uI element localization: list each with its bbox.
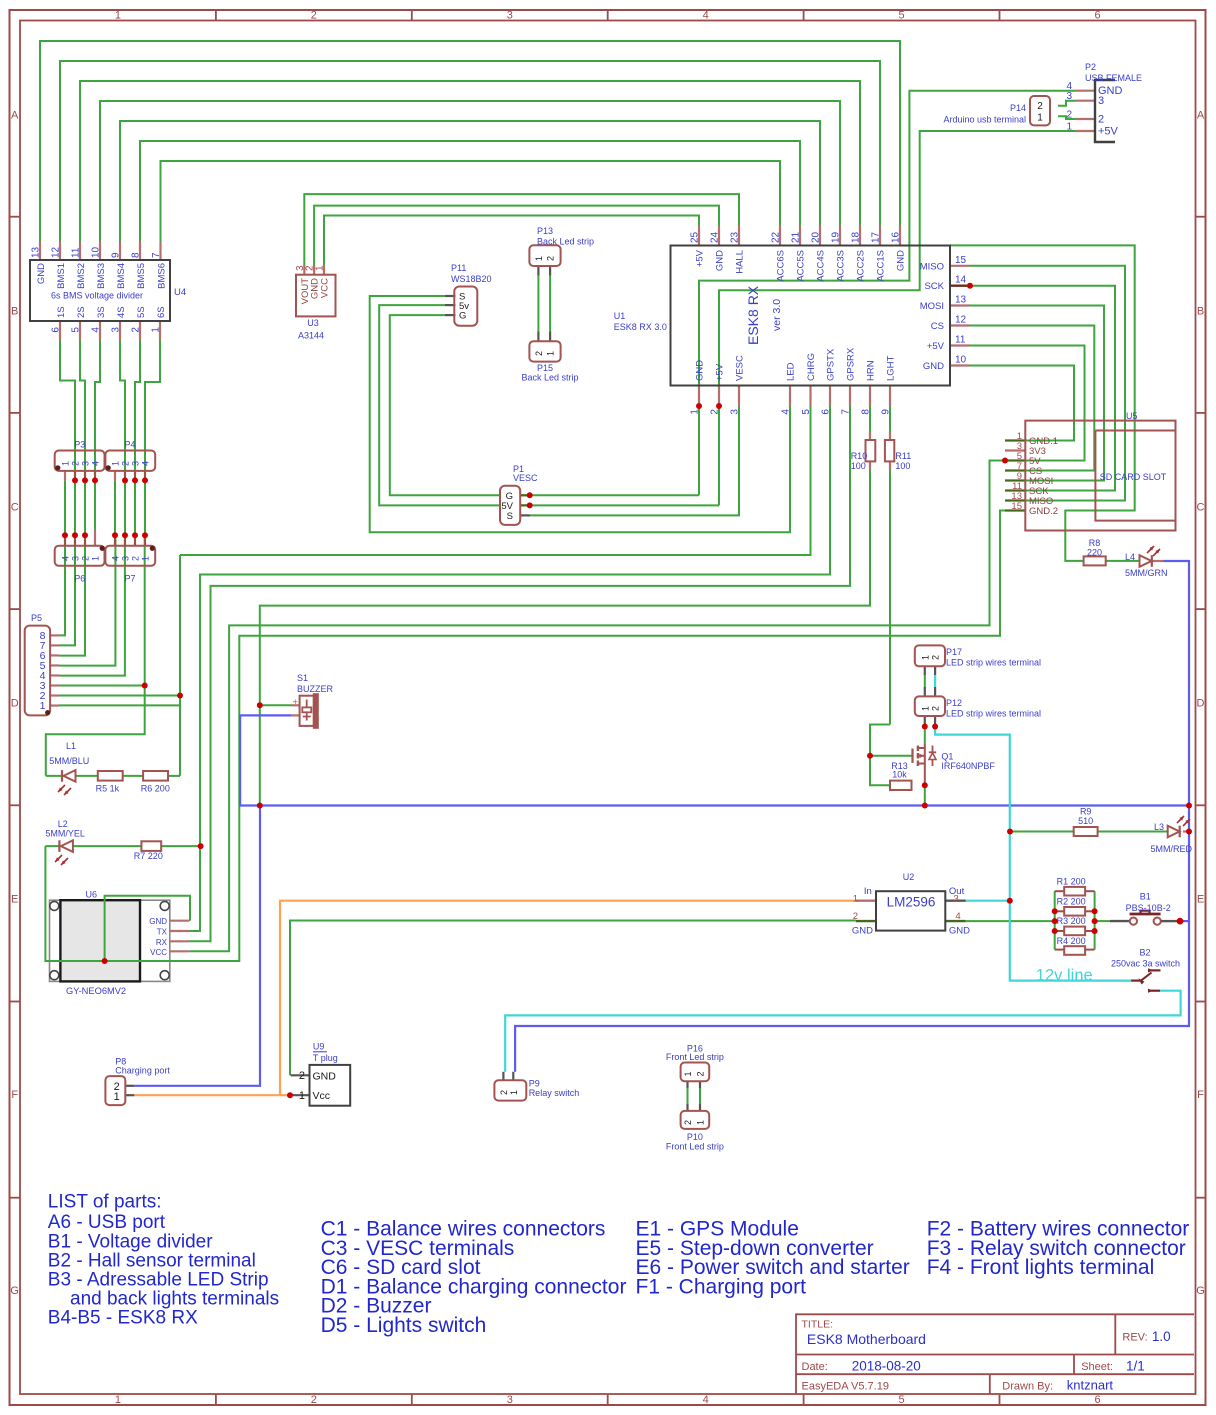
svg-text:8: 8 bbox=[131, 252, 142, 258]
svg-text:7: 7 bbox=[841, 409, 852, 415]
svg-text:2S: 2S bbox=[76, 306, 87, 318]
svg-text:HALL: HALL bbox=[735, 250, 746, 274]
svg-text:2: 2 bbox=[311, 10, 317, 22]
svg-text:4: 4 bbox=[955, 911, 960, 922]
svg-text:17: 17 bbox=[871, 231, 882, 243]
svg-text:4: 4 bbox=[781, 409, 792, 415]
svg-text:2: 2 bbox=[546, 256, 556, 261]
svg-text:Front Led strip: Front Led strip bbox=[666, 1142, 724, 1152]
svg-text:P15: P15 bbox=[537, 363, 553, 373]
svg-text:Q1: Q1 bbox=[941, 752, 953, 762]
svg-text:VESC: VESC bbox=[513, 473, 538, 483]
svg-text:Relay switch: Relay switch bbox=[529, 1088, 580, 1098]
svg-text:P2: P2 bbox=[1085, 62, 1096, 72]
svg-text:5MM/GRN: 5MM/GRN bbox=[1125, 568, 1168, 578]
svg-text:L4: L4 bbox=[1125, 552, 1135, 562]
svg-text:2: 2 bbox=[121, 461, 131, 466]
svg-text:1: 1 bbox=[920, 706, 930, 711]
svg-text:100: 100 bbox=[895, 461, 910, 471]
svg-text:B3 - Adressable LED Strip: B3 - Adressable LED Strip bbox=[48, 1269, 269, 1290]
svg-text:12: 12 bbox=[955, 315, 967, 326]
svg-text:HRN: HRN bbox=[866, 360, 877, 381]
svg-text:P12: P12 bbox=[946, 698, 962, 708]
svg-text:3: 3 bbox=[121, 556, 131, 561]
svg-text:ACC4S: ACC4S bbox=[816, 250, 827, 282]
svg-text:250vac 3a switch: 250vac 3a switch bbox=[1111, 959, 1180, 969]
svg-text:R10: R10 bbox=[851, 451, 868, 461]
svg-text:3: 3 bbox=[1066, 91, 1072, 102]
svg-text:BMS1: BMS1 bbox=[56, 263, 67, 289]
svg-text:1: 1 bbox=[509, 1090, 519, 1095]
svg-text:GND: GND bbox=[695, 360, 706, 381]
svg-text:A: A bbox=[1197, 110, 1205, 122]
svg-text:R2 200: R2 200 bbox=[1057, 896, 1086, 906]
svg-text:5MM/BLU: 5MM/BLU bbox=[49, 756, 89, 766]
svg-text:LGHT: LGHT bbox=[886, 355, 897, 381]
svg-text:4: 4 bbox=[703, 10, 709, 22]
svg-text:3: 3 bbox=[111, 327, 122, 333]
svg-text:18: 18 bbox=[851, 231, 862, 243]
svg-text:4: 4 bbox=[91, 327, 102, 333]
svg-text:1: 1 bbox=[1037, 113, 1043, 124]
svg-text:C: C bbox=[1197, 502, 1205, 514]
svg-text:A6 - USB port: A6 - USB port bbox=[48, 1212, 166, 1233]
svg-text:5: 5 bbox=[899, 1394, 905, 1406]
svg-text:22: 22 bbox=[771, 231, 782, 243]
svg-text:B4-B5 - ESK8 RX: B4-B5 - ESK8 RX bbox=[48, 1307, 198, 1328]
svg-text:6: 6 bbox=[1094, 1394, 1100, 1406]
svg-text:1/1: 1/1 bbox=[1126, 1358, 1145, 1373]
svg-text:2: 2 bbox=[81, 556, 91, 561]
svg-text:1.0: 1.0 bbox=[1152, 1329, 1171, 1344]
svg-text:E: E bbox=[1197, 893, 1204, 905]
svg-text:BUZZER: BUZZER bbox=[297, 684, 334, 694]
svg-text:G: G bbox=[1196, 1285, 1205, 1297]
svg-text:F4 - Front lights terminal: F4 - Front lights terminal bbox=[927, 1256, 1155, 1279]
svg-text:12v line: 12v line bbox=[1036, 967, 1093, 985]
svg-text:2: 2 bbox=[534, 351, 544, 356]
svg-text:8: 8 bbox=[861, 409, 872, 415]
svg-text:P4: P4 bbox=[124, 440, 135, 450]
svg-text:ACC6S: ACC6S bbox=[776, 250, 787, 282]
svg-text:BMS2: BMS2 bbox=[76, 263, 87, 289]
svg-text:R1 200: R1 200 bbox=[1057, 876, 1086, 886]
svg-text:5MM/YEL: 5MM/YEL bbox=[45, 829, 85, 839]
svg-text:1: 1 bbox=[91, 556, 101, 561]
svg-text:1: 1 bbox=[315, 265, 326, 271]
svg-text:2: 2 bbox=[131, 556, 141, 561]
svg-text:P10: P10 bbox=[687, 1132, 703, 1142]
svg-text:6: 6 bbox=[1094, 10, 1100, 22]
svg-text:G: G bbox=[459, 311, 466, 322]
svg-text:1: 1 bbox=[1066, 122, 1072, 133]
svg-text:1: 1 bbox=[546, 351, 556, 356]
svg-text:510: 510 bbox=[1078, 816, 1093, 826]
svg-text:4: 4 bbox=[111, 556, 121, 561]
svg-text:2: 2 bbox=[931, 706, 941, 711]
svg-text:3: 3 bbox=[954, 894, 959, 905]
svg-text:MOSI: MOSI bbox=[920, 301, 944, 312]
svg-text:P7: P7 bbox=[124, 574, 135, 584]
svg-text:GND: GND bbox=[715, 250, 726, 271]
svg-text:SCK: SCK bbox=[924, 281, 944, 292]
svg-text:GND: GND bbox=[36, 263, 47, 284]
svg-text:ESK8 RX 3.0: ESK8 RX 3.0 bbox=[614, 322, 667, 332]
svg-text:Drawn By:: Drawn By: bbox=[1002, 1380, 1053, 1392]
svg-text:B2: B2 bbox=[1139, 948, 1150, 958]
svg-text:11: 11 bbox=[955, 335, 966, 346]
svg-text:25: 25 bbox=[690, 231, 701, 243]
svg-text:3: 3 bbox=[507, 10, 513, 22]
svg-text:F: F bbox=[1197, 1089, 1204, 1101]
svg-text:U3: U3 bbox=[307, 318, 319, 328]
svg-text:15: 15 bbox=[1011, 501, 1022, 512]
svg-text:P6: P6 bbox=[74, 574, 85, 584]
svg-text:7: 7 bbox=[151, 252, 162, 258]
svg-text:P14: P14 bbox=[1010, 103, 1026, 113]
svg-text:1: 1 bbox=[690, 409, 701, 415]
svg-text:EasyEDA V5.7.19: EasyEDA V5.7.19 bbox=[802, 1380, 889, 1392]
svg-text:1: 1 bbox=[151, 327, 162, 333]
svg-text:5: 5 bbox=[71, 327, 82, 333]
svg-text:L2: L2 bbox=[58, 819, 68, 829]
svg-text:12: 12 bbox=[51, 246, 62, 258]
svg-text:100: 100 bbox=[851, 461, 866, 471]
svg-text:S1: S1 bbox=[297, 673, 308, 683]
svg-text:U5: U5 bbox=[1126, 411, 1138, 421]
svg-text:23: 23 bbox=[730, 231, 741, 243]
svg-text:T plug: T plug bbox=[313, 1053, 338, 1063]
svg-text:BMS4: BMS4 bbox=[116, 263, 127, 289]
svg-text:WS18B20: WS18B20 bbox=[451, 274, 492, 284]
svg-text:G: G bbox=[10, 1285, 19, 1297]
svg-text:1: 1 bbox=[696, 1120, 706, 1125]
svg-text:1: 1 bbox=[40, 700, 46, 712]
svg-text:L1: L1 bbox=[66, 741, 76, 751]
svg-text:VCC: VCC bbox=[150, 948, 167, 957]
svg-text:4: 4 bbox=[91, 461, 101, 466]
svg-text:MISO: MISO bbox=[920, 261, 944, 272]
svg-text:U2: U2 bbox=[903, 872, 915, 882]
svg-text:20: 20 bbox=[811, 231, 822, 243]
svg-text:GND: GND bbox=[896, 250, 907, 271]
svg-text:1: 1 bbox=[920, 655, 930, 660]
svg-text:16: 16 bbox=[891, 231, 902, 243]
svg-text:A3144: A3144 bbox=[298, 331, 324, 341]
svg-text:ACC3S: ACC3S bbox=[836, 250, 847, 282]
svg-text:4: 4 bbox=[703, 1394, 709, 1406]
svg-text:GND.2: GND.2 bbox=[1029, 506, 1058, 517]
svg-text:2: 2 bbox=[499, 1090, 509, 1095]
svg-text:U1: U1 bbox=[614, 311, 626, 321]
svg-text:Vcc: Vcc bbox=[313, 1090, 331, 1102]
svg-text:Front Led strip: Front Led strip bbox=[666, 1052, 724, 1062]
svg-text:GND: GND bbox=[949, 926, 970, 937]
svg-text:REV:: REV: bbox=[1122, 1331, 1147, 1343]
svg-text:LIST of parts:: LIST of parts: bbox=[48, 1192, 162, 1213]
svg-text:C: C bbox=[11, 502, 19, 514]
svg-text:GND: GND bbox=[313, 1071, 337, 1083]
svg-text:LED strip wires terminal: LED strip wires terminal bbox=[946, 658, 1041, 668]
svg-text:5: 5 bbox=[801, 409, 812, 415]
svg-text:GY-NEO6MV2: GY-NEO6MV2 bbox=[66, 986, 126, 996]
svg-text:14: 14 bbox=[955, 275, 967, 286]
svg-text:BMS6: BMS6 bbox=[157, 263, 168, 289]
svg-text:LED strip wires terminal: LED strip wires terminal bbox=[946, 709, 1041, 719]
svg-text:ACC5S: ACC5S bbox=[796, 250, 807, 282]
svg-text:2: 2 bbox=[71, 461, 81, 466]
svg-text:ACC1S: ACC1S bbox=[876, 250, 887, 282]
svg-text:B: B bbox=[1197, 306, 1204, 318]
svg-text:2: 2 bbox=[710, 409, 721, 415]
svg-text:LM2596: LM2596 bbox=[887, 895, 936, 910]
svg-text:9: 9 bbox=[111, 252, 122, 258]
svg-text:1: 1 bbox=[853, 894, 858, 905]
svg-text:3: 3 bbox=[1098, 95, 1104, 107]
svg-text:1: 1 bbox=[141, 556, 151, 561]
svg-text:VESC: VESC bbox=[735, 355, 746, 381]
svg-text:CHRG: CHRG bbox=[806, 353, 817, 381]
svg-text:R9: R9 bbox=[1080, 807, 1092, 817]
svg-text:5S: 5S bbox=[136, 306, 147, 318]
svg-text:kntznart: kntznart bbox=[1067, 1378, 1114, 1393]
svg-text:Back Led strip: Back Led strip bbox=[537, 237, 594, 247]
svg-text:ACC2S: ACC2S bbox=[856, 250, 867, 282]
svg-text:R4 200: R4 200 bbox=[1057, 936, 1086, 946]
svg-text:U6: U6 bbox=[86, 890, 98, 900]
svg-text:GND: GND bbox=[852, 926, 873, 937]
svg-text:Back Led strip: Back Led strip bbox=[521, 373, 578, 383]
svg-text:13: 13 bbox=[31, 246, 42, 258]
svg-text:9: 9 bbox=[881, 409, 892, 415]
svg-text:S: S bbox=[507, 511, 513, 522]
svg-text:+: + bbox=[293, 697, 298, 707]
svg-text:+5V: +5V bbox=[927, 341, 945, 352]
svg-text:and back lights terminals: and back lights terminals bbox=[70, 1288, 279, 1309]
svg-text:1: 1 bbox=[683, 1071, 693, 1076]
svg-text:2: 2 bbox=[131, 327, 142, 333]
svg-text:24: 24 bbox=[710, 231, 721, 243]
svg-text:R6 200: R6 200 bbox=[141, 784, 170, 794]
svg-text:6S: 6S bbox=[156, 306, 167, 318]
svg-text:SD CARD SLOT: SD CARD SLOT bbox=[1100, 472, 1167, 482]
svg-text:D5 - Lights switch: D5 - Lights switch bbox=[321, 1314, 487, 1337]
svg-text:3: 3 bbox=[131, 461, 141, 466]
svg-text:B1: B1 bbox=[1140, 892, 1151, 902]
svg-text:5: 5 bbox=[899, 10, 905, 22]
svg-text:6: 6 bbox=[51, 327, 62, 333]
svg-text:LED: LED bbox=[786, 362, 797, 381]
svg-text:Charging port: Charging port bbox=[115, 1065, 170, 1075]
svg-text:1S: 1S bbox=[56, 306, 67, 318]
svg-text:USB FEMALE: USB FEMALE bbox=[1085, 73, 1142, 83]
svg-text:D: D bbox=[1197, 697, 1205, 709]
svg-text:B2 - Hall sensor terminal: B2 - Hall sensor terminal bbox=[48, 1250, 256, 1271]
svg-text:+5V: +5V bbox=[715, 363, 726, 381]
svg-text:ESK8 RX: ESK8 RX bbox=[745, 285, 761, 345]
svg-text:6s BMS voltage divider: 6s BMS voltage divider bbox=[51, 291, 143, 301]
svg-text:R8: R8 bbox=[1089, 538, 1101, 548]
svg-text:R11: R11 bbox=[895, 451, 911, 461]
svg-text:1: 1 bbox=[534, 256, 544, 261]
svg-text:21: 21 bbox=[791, 231, 802, 243]
svg-text:P3: P3 bbox=[74, 440, 85, 450]
svg-text:F: F bbox=[11, 1089, 18, 1101]
svg-text:GND: GND bbox=[923, 361, 944, 372]
svg-text:B: B bbox=[11, 306, 18, 318]
svg-text:GND: GND bbox=[149, 917, 167, 926]
svg-text:3: 3 bbox=[730, 409, 741, 415]
svg-text:A: A bbox=[11, 110, 19, 122]
svg-text:R7 220: R7 220 bbox=[134, 851, 163, 861]
svg-text:2: 2 bbox=[1066, 110, 1072, 121]
svg-text:2: 2 bbox=[683, 1120, 693, 1125]
svg-text:Sheet:: Sheet: bbox=[1081, 1361, 1113, 1373]
svg-text:L3: L3 bbox=[1154, 822, 1164, 832]
svg-text:P17: P17 bbox=[946, 647, 962, 657]
svg-text:2: 2 bbox=[1098, 114, 1104, 126]
svg-text:1: 1 bbox=[61, 461, 71, 466]
svg-text:+5V: +5V bbox=[1098, 126, 1119, 138]
svg-text:10k: 10k bbox=[892, 770, 907, 780]
svg-text:3S: 3S bbox=[96, 306, 107, 318]
svg-text:2: 2 bbox=[696, 1071, 706, 1076]
svg-text:VCC: VCC bbox=[320, 278, 331, 298]
svg-text:6: 6 bbox=[821, 409, 832, 415]
svg-text:U9: U9 bbox=[313, 1042, 325, 1052]
svg-text:1: 1 bbox=[115, 1394, 121, 1406]
svg-text:4S: 4S bbox=[116, 306, 127, 318]
svg-text:1: 1 bbox=[299, 1090, 305, 1102]
svg-text:PBS-10B-2: PBS-10B-2 bbox=[1126, 903, 1171, 913]
svg-text:TX: TX bbox=[157, 928, 168, 937]
svg-text:In: In bbox=[864, 886, 872, 897]
svg-text:R3 200: R3 200 bbox=[1057, 916, 1086, 926]
svg-text:IRF640NPBF: IRF640NPBF bbox=[941, 761, 995, 771]
svg-text:1: 1 bbox=[111, 461, 121, 466]
svg-text:5MM/RED: 5MM/RED bbox=[1151, 844, 1193, 854]
svg-text:2: 2 bbox=[299, 1070, 305, 1082]
svg-text:4: 4 bbox=[141, 461, 151, 466]
svg-text:11: 11 bbox=[71, 247, 82, 258]
svg-text:3: 3 bbox=[81, 461, 91, 466]
svg-text:1: 1 bbox=[114, 1091, 120, 1103]
svg-text:U4: U4 bbox=[174, 287, 186, 298]
svg-text:D: D bbox=[11, 697, 19, 709]
svg-text:BMS5: BMS5 bbox=[136, 263, 147, 289]
svg-text:RX: RX bbox=[156, 938, 168, 947]
svg-text:P5: P5 bbox=[31, 613, 42, 623]
svg-text:13: 13 bbox=[955, 295, 967, 306]
svg-text:BMS3: BMS3 bbox=[96, 263, 107, 289]
svg-text:P11: P11 bbox=[451, 263, 466, 273]
svg-text:3: 3 bbox=[507, 1394, 513, 1406]
svg-text:2: 2 bbox=[853, 911, 858, 922]
svg-text:GPSTX: GPSTX bbox=[826, 348, 837, 381]
svg-text:2: 2 bbox=[931, 655, 941, 660]
svg-text:GPSRX: GPSRX bbox=[846, 347, 857, 381]
svg-text:Date:: Date: bbox=[802, 1361, 828, 1373]
svg-text:4: 4 bbox=[61, 556, 71, 561]
svg-text:F1 - Charging port: F1 - Charging port bbox=[636, 1275, 807, 1298]
svg-text:Arduino usb terminal: Arduino usb terminal bbox=[943, 115, 1026, 125]
svg-text:+5V: +5V bbox=[695, 249, 706, 267]
svg-text:19: 19 bbox=[831, 231, 842, 243]
svg-text:220: 220 bbox=[1087, 548, 1102, 558]
svg-text:15: 15 bbox=[955, 255, 967, 266]
svg-text:2018-08-20: 2018-08-20 bbox=[852, 1358, 921, 1373]
svg-text:P13: P13 bbox=[537, 226, 553, 236]
svg-text:CS: CS bbox=[931, 321, 944, 332]
svg-text:10: 10 bbox=[955, 355, 967, 366]
svg-text:TITLE:: TITLE: bbox=[802, 1318, 834, 1330]
svg-text:E: E bbox=[11, 893, 18, 905]
svg-text:2: 2 bbox=[1037, 101, 1043, 112]
svg-text:ESK8 Motherboard: ESK8 Motherboard bbox=[807, 1331, 926, 1347]
svg-text:R5 1k: R5 1k bbox=[96, 784, 120, 794]
svg-text:3: 3 bbox=[71, 556, 81, 561]
svg-text:10: 10 bbox=[91, 246, 102, 258]
svg-text:1: 1 bbox=[115, 10, 121, 22]
svg-text:ver 3.0: ver 3.0 bbox=[771, 299, 783, 331]
svg-text:2: 2 bbox=[311, 1394, 317, 1406]
